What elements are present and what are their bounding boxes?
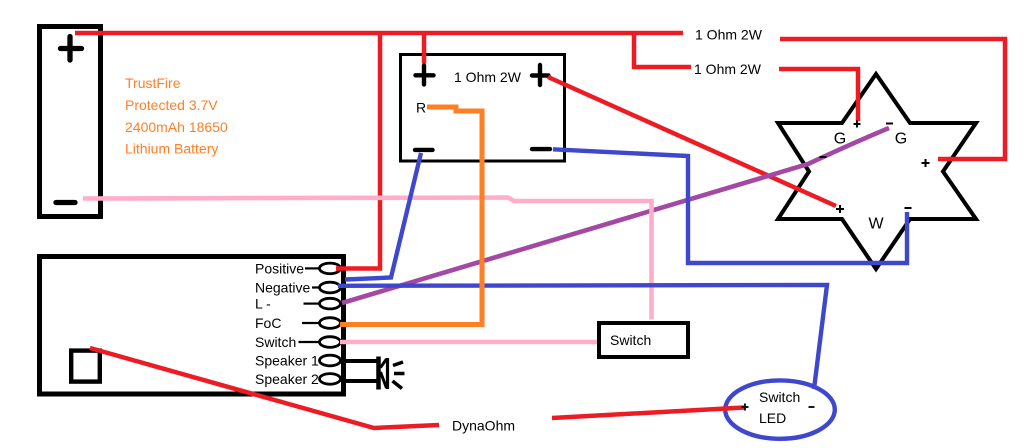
svg-text:R: R: [416, 100, 426, 116]
svg-text:1 Ohm 2W: 1 Ohm 2W: [454, 69, 522, 85]
svg-text:G: G: [834, 131, 846, 148]
svg-text:Protected 3.7V: Protected 3.7V: [125, 97, 218, 113]
svg-text:G: G: [895, 131, 907, 148]
svg-text:Switch: Switch: [759, 389, 800, 405]
svg-text:Lithium Battery: Lithium Battery: [125, 141, 218, 157]
svg-text:2400mAh 18650: 2400mAh 18650: [125, 119, 228, 135]
svg-text:Speaker 1: Speaker 1: [255, 353, 319, 369]
svg-text:Switch: Switch: [255, 334, 296, 350]
svg-text:LED: LED: [759, 410, 786, 426]
svg-text:1 Ohm 2W: 1 Ohm 2W: [694, 61, 762, 77]
svg-text:1 Ohm 2W: 1 Ohm 2W: [695, 27, 763, 43]
svg-text:W: W: [868, 216, 884, 233]
svg-text:Switch: Switch: [610, 332, 651, 348]
svg-text:TrustFire: TrustFire: [125, 75, 181, 91]
svg-text:L -: L -: [255, 296, 271, 312]
svg-text:Positive: Positive: [255, 260, 304, 276]
svg-text:Speaker 2: Speaker 2: [255, 371, 319, 387]
svg-text:DynaOhm: DynaOhm: [452, 418, 515, 434]
svg-text:FoC: FoC: [255, 315, 281, 331]
svg-text:Negative: Negative: [255, 280, 310, 296]
